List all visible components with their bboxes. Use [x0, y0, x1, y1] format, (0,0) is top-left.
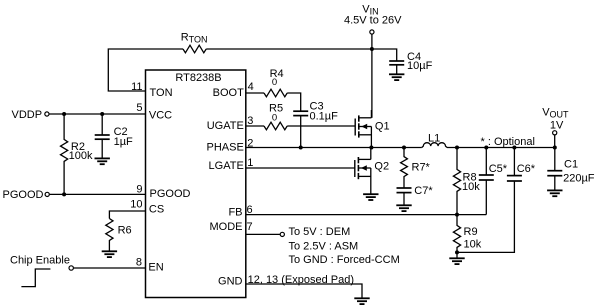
resistor R9: [453, 215, 460, 253]
svg-text:VCC: VCC: [149, 110, 172, 122]
svg-text:1: 1: [247, 157, 253, 169]
wire PHASE pin 2: [246, 147, 422, 149]
wire R9 bottom to ground: [456, 252, 458, 258]
svg-text:L1: L1: [428, 133, 440, 145]
wire UGATE pin 3 to R5: [246, 125, 264, 127]
node C1/VOUT junction: [553, 146, 557, 150]
wire VIN node to C4: [372, 49, 397, 61]
svg-text:Q2: Q2: [374, 161, 389, 173]
terminal Chip Enable circle: [69, 266, 73, 270]
resistor R2: [60, 114, 67, 194]
svg-text:C7*: C7*: [414, 185, 433, 197]
svg-text:7: 7: [247, 221, 253, 233]
terminal VDDP circle: [45, 112, 49, 116]
svg-text:1V: 1V: [550, 120, 564, 132]
svg-text:1µF: 1µF: [114, 136, 133, 148]
wire FB pin 6: [246, 214, 486, 216]
svg-text:To 5V : DEM: To 5V : DEM: [289, 226, 351, 238]
capacitor C6: [513, 148, 515, 176]
wire BOOT pin 4 to R4: [246, 92, 264, 94]
svg-text:C6*: C6*: [517, 163, 536, 175]
svg-text:RT8238B: RT8238B: [175, 72, 221, 84]
wire VIN node down to Q1 drain: [371, 49, 373, 118]
wire VDDP to VCC pin 5: [49, 113, 145, 115]
wire MODE pin 7: [246, 233, 280, 235]
svg-text:8: 8: [136, 257, 142, 269]
node C6 junction: [512, 146, 516, 150]
wire VOUT terminal to rail: [554, 135, 556, 147]
wire R5 to Q1 gate: [287, 125, 355, 127]
svg-text:PGOOD: PGOOD: [150, 188, 191, 200]
wire VIN down to node: [371, 34, 373, 49]
svg-text:3: 3: [247, 115, 253, 127]
svg-text:LGATE: LGATE: [209, 160, 244, 172]
svg-text:EN: EN: [148, 262, 163, 274]
svg-text:MODE: MODE: [210, 221, 243, 233]
svg-text:To 2.5V : ASM: To 2.5V : ASM: [289, 241, 359, 253]
ground for Q2 source: [363, 194, 378, 200]
svg-text:9: 9: [136, 183, 142, 195]
svg-text:5: 5: [136, 102, 142, 114]
svg-text:220µF: 220µF: [563, 172, 595, 184]
svg-text:10µF: 10µF: [407, 60, 433, 72]
capacitor C2: [101, 114, 103, 135]
svg-text:0: 0: [272, 77, 277, 88]
node R8/R9 FB junction: [455, 213, 459, 217]
wire R4 to C3 top: [287, 93, 301, 111]
wire LGATE pin 1 to Q2 gate: [246, 167, 355, 169]
capacitor C4: [389, 60, 404, 62]
node R9 bottom junction: [455, 250, 459, 254]
resistor R7: [401, 148, 408, 189]
resistor R4: [264, 89, 287, 97]
resistor R5: [264, 122, 287, 130]
transistor Q2: [355, 148, 371, 195]
terminal VOUT circle: [553, 131, 557, 135]
svg-text:0: 0: [272, 113, 277, 124]
terminal MODE circle: [280, 232, 284, 236]
node R2 top junction: [62, 112, 66, 116]
capacitor C1: [554, 148, 556, 171]
resistor R8: [453, 148, 460, 215]
ground for C4: [389, 74, 404, 80]
wire C6 bottom to R9 ground node: [457, 181, 514, 252]
terminal VIN circle: [370, 30, 374, 34]
svg-text:To GND : Forced-CCM: To GND : Forced-CCM: [289, 254, 400, 266]
svg-text:10k: 10k: [462, 181, 480, 193]
wire output rail VOUT: [447, 147, 556, 149]
svg-text:4: 4: [248, 81, 254, 93]
wire RTON to VIN node: [206, 48, 372, 50]
wire EN pin 8: [74, 267, 146, 269]
wire C3 bottom to PHASE: [300, 116, 302, 148]
op-amp U1 RT8238B body: [146, 70, 246, 298]
transistor Q1: [355, 110, 371, 148]
svg-text:0.1µF: 0.1µF: [310, 111, 339, 123]
svg-text:R9: R9: [464, 226, 478, 238]
node R2 bottom junction: [62, 192, 66, 196]
svg-text:4.5V to 26V: 4.5V to 26V: [344, 15, 402, 27]
svg-text:Q1: Q1: [375, 121, 390, 133]
svg-text:GND: GND: [218, 276, 243, 288]
node C3/PHASE junction: [299, 146, 303, 150]
svg-text:FB: FB: [228, 206, 242, 218]
svg-text:PGOOD: PGOOD: [3, 189, 44, 201]
svg-text:PHASE: PHASE: [207, 141, 244, 153]
wire TON pin 11 to RTON: [108, 49, 183, 91]
ground for C1: [547, 190, 562, 196]
svg-text:10k: 10k: [464, 238, 482, 250]
node Q1 source / Q2 drain junction: [369, 146, 373, 150]
svg-text:UGATE: UGATE: [207, 120, 244, 132]
ground for R6: [102, 251, 117, 257]
capacitor C3: [293, 110, 308, 112]
svg-text:R7*: R7*: [412, 161, 431, 173]
svg-text:C5*: C5*: [489, 163, 508, 175]
resistor R6: [106, 219, 113, 252]
ground for GND pin: [354, 298, 369, 304]
svg-text:R6: R6: [118, 225, 132, 237]
wire CS pin 10: [109, 211, 145, 219]
svg-text:C1: C1: [564, 159, 578, 171]
inductor L1: [422, 143, 447, 148]
node VIN junction: [370, 47, 374, 51]
svg-text:CS: CS: [149, 204, 164, 216]
node R8 junction: [455, 146, 459, 150]
capacitor C5: [485, 148, 487, 176]
node R7 junction: [402, 146, 406, 150]
svg-text:10: 10: [130, 199, 142, 211]
svg-text:VDDP: VDDP: [12, 109, 43, 121]
chip enable step waveform symbol: [21, 269, 50, 287]
wire GND pin 12,13: [246, 284, 362, 298]
ground for R9: [449, 258, 464, 264]
wire PGOOD to pin 9: [50, 193, 146, 195]
svg-text:100k: 100k: [69, 150, 93, 162]
node C2 top junction: [100, 112, 104, 116]
ground for C2: [95, 158, 110, 164]
svg-text:Chip Enable: Chip Enable: [10, 254, 70, 266]
terminal PGOOD circle: [45, 192, 49, 196]
svg-text:BOOT: BOOT: [213, 87, 244, 99]
capacitor C7: [397, 187, 412, 189]
svg-text:TON: TON: [150, 87, 173, 99]
svg-text:* : Optional: * : Optional: [481, 136, 535, 148]
node C5 junction: [484, 146, 488, 150]
resistor RTON: [183, 45, 206, 53]
ground for C7: [396, 205, 411, 211]
